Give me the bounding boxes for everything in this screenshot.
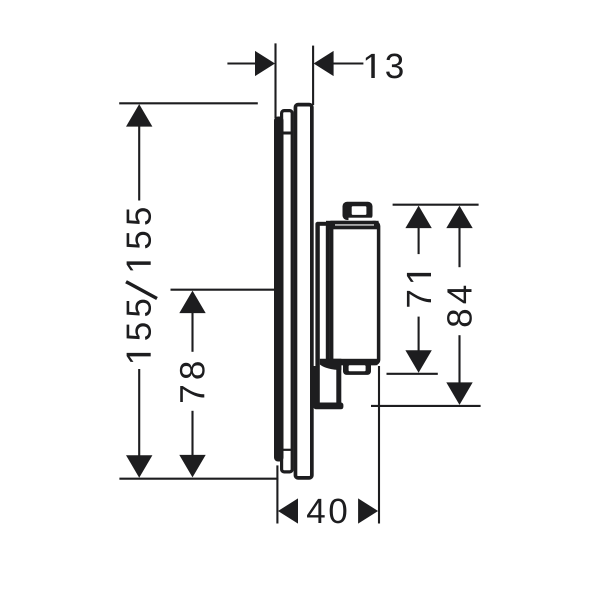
wire: mounting rail spine — [315, 222, 319, 407]
node: arrow 13 left (points right) — [255, 51, 275, 76]
wire: 78 top extension line — [171, 289, 276, 291]
node: arrow 40 right (points right) — [358, 498, 378, 523]
wire: extension line 13 left — [274, 43, 276, 118]
node: label 78 — [180, 362, 205, 402]
wire: rail-plate merge — [313, 366, 317, 408]
node: label 40 — [307, 499, 346, 524]
wire: cartridge liner line — [329, 224, 333, 362]
wire: 155 bottom extension line — [119, 478, 278, 480]
node: arrow 71 down — [405, 350, 431, 373]
node: label 13 — [366, 54, 403, 79]
component: cartridge body outline — [328, 223, 379, 364]
wire: rail foot — [314, 403, 344, 410]
wire: dim 84 line lower — [458, 335, 460, 385]
node: label 71 — [407, 273, 431, 307]
wire: dim 84 line upper — [458, 226, 460, 267]
node: upper crossbar in plate channel — [283, 132, 291, 135]
node: arrow 71 up — [405, 206, 431, 229]
wire: plate back band — [274, 117, 284, 462]
node: arrow 84 down — [446, 382, 472, 405]
node: arrow 84 up — [446, 206, 472, 229]
wire: dim 13 right tail — [333, 62, 364, 64]
wire: 84 bottom extension line — [371, 405, 481, 407]
node: arrow 155 down — [126, 455, 152, 478]
node: label 155 upper — [127, 208, 151, 270]
wire: escutcheon front profile outline — [295, 105, 311, 478]
component: cartridge cap button — [343, 202, 373, 220]
node: label 155 lower — [127, 300, 151, 362]
wire: dim 78 line upper — [191, 311, 193, 352]
node: arrow 78 up — [179, 291, 205, 314]
wire: escutcheon middle profile outline — [282, 111, 293, 472]
wire: dim 71 line lower — [418, 317, 420, 353]
wire: extension line 13 right — [312, 46, 314, 105]
wire: outlet pipe — [336, 362, 341, 407]
wire: 155 top extension line — [119, 102, 258, 104]
wire: bottom-left fillet wedge — [320, 359, 342, 370]
node: label 84 — [447, 286, 472, 327]
wire: 71 bottom extension line — [387, 373, 438, 375]
node: arrow 155 up — [126, 104, 152, 127]
wire: 40 left extension line — [276, 465, 278, 523]
wire: 40 right extension line — [378, 366, 380, 524]
wire: dim 78 line lower — [191, 411, 193, 457]
node: arrow 13 right (points left) — [314, 51, 334, 76]
node: arrow 78 down — [179, 455, 205, 478]
wire: cartridge bottom bar — [327, 359, 378, 365]
wire: top bar hairline — [335, 224, 374, 225]
node: label 155 slash — [126, 282, 157, 299]
wire: 71-84 top extension line — [393, 204, 479, 206]
node: arrow 40 left (points left) — [278, 498, 298, 523]
wire: cartridge top bar — [326, 221, 379, 230]
wire: bottom tab — [343, 361, 371, 375]
wire: dim 155 line upper — [138, 124, 140, 201]
wire: dim 155 line lower — [138, 369, 140, 457]
wire: rail top ledge — [317, 222, 335, 226]
node: lower crossbar in plate channel — [283, 449, 291, 451]
wire: dim 71 line upper — [418, 226, 420, 254]
wire: dim 13 left tail — [227, 62, 257, 64]
